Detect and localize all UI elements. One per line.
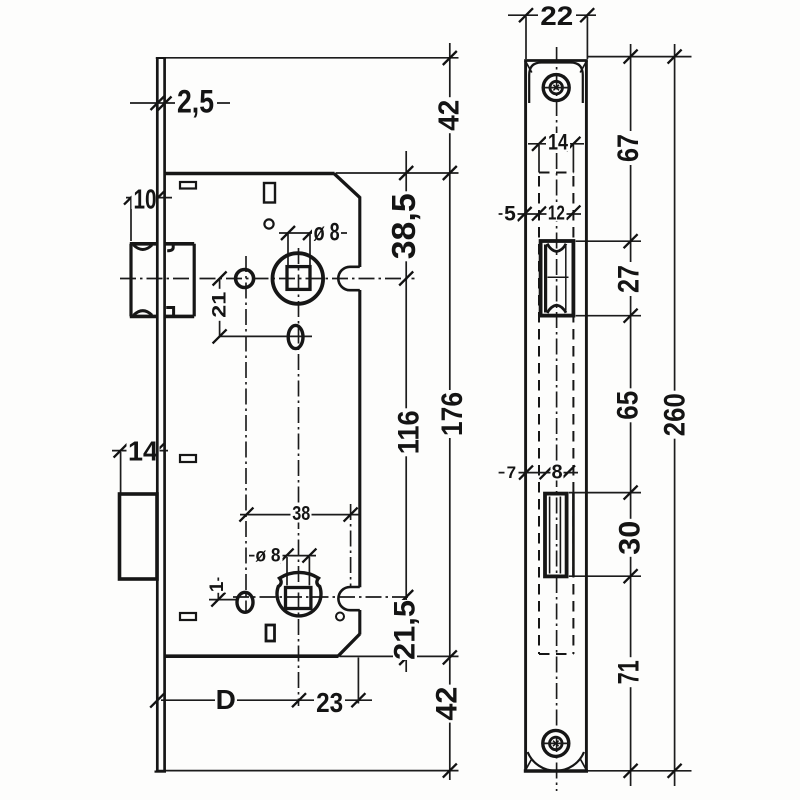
center line small holes vertical (245, 256, 247, 611)
latch head top edge (130, 242, 157, 246)
svg-text:ø 8: ø 8 (256, 545, 281, 567)
extension line plate top (166, 57, 459, 59)
dim dia8 lower extensions (286, 557, 288, 585)
svg-text:7: 7 (507, 463, 516, 482)
svg-text:14: 14 (128, 436, 158, 467)
latch opening frame (541, 241, 574, 316)
text D (215, 688, 237, 711)
text 42 bottom rotated (431, 685, 464, 723)
dim 14 extension (120, 452, 122, 494)
dim line A 38,5 116 21,5 (405, 151, 407, 672)
center line notch vertical (350, 504, 352, 588)
slot bottom middle (266, 625, 275, 641)
faceplate bottom cap (155, 770, 167, 772)
deadbolt side face right (559, 497, 561, 574)
text 38 (291, 506, 312, 523)
svg-text:176: 176 (436, 392, 469, 436)
center line latch axis horizontal (120, 278, 415, 280)
dim D 23 line (161, 699, 372, 701)
lower spindle follower with notches (277, 572, 321, 615)
text 14 right (546, 133, 570, 151)
lock body upper notch (338, 267, 360, 290)
lock body top edge (165, 172, 335, 175)
dim line D 260 (674, 44, 676, 786)
extension line lock top (336, 172, 459, 174)
latch head bottom edge (130, 315, 157, 319)
small hole upper (264, 219, 273, 228)
text 23 (314, 692, 345, 714)
deadbolt opening frame (545, 494, 567, 577)
dashed lock case left (538, 176, 540, 654)
extension line faceplate bottom right (588, 770, 692, 772)
svg-text:10: 10 (134, 184, 157, 215)
lock body right edge upper (358, 197, 361, 268)
svg-text:ø 8: ø 8 (314, 218, 340, 246)
extension line faceplate top right (588, 56, 692, 58)
text 176 rotated (436, 390, 469, 438)
dim 23 extension (357, 658, 359, 704)
latch bolt face bottom arc (547, 305, 566, 313)
text 42 top rotated (433, 97, 465, 133)
extension line latch top (576, 240, 641, 242)
text 30 rotated (613, 519, 646, 557)
follower hole lower left (237, 592, 253, 612)
screw hole slot bottom left (180, 613, 196, 620)
faceplate bottom corner fillet left (526, 760, 532, 770)
faceplate side view right line (163, 59, 166, 772)
text 21,5 rotated (389, 600, 422, 660)
screw top cross (553, 85, 559, 91)
svg-text:38,5: 38,5 (385, 193, 422, 259)
faceplate top cap (156, 57, 166, 59)
upper spindle circle (273, 253, 324, 304)
extension line bolt bottom (569, 575, 641, 577)
svg-text:1: 1 (207, 581, 228, 592)
svg-text:12: 12 (548, 202, 565, 224)
pocket side right solid (572, 145, 574, 173)
svg-text:67: 67 (612, 134, 645, 162)
svg-text:260: 260 (659, 393, 692, 436)
svg-text:42: 42 (433, 100, 465, 131)
center line faceplate vertical (556, 47, 558, 791)
latch housing bottom edge (164, 315, 194, 319)
faceplate bottom corner fillet right (581, 760, 587, 770)
svg-text:30: 30 (613, 521, 646, 555)
dim line C 67 27 65 30 71 (630, 44, 632, 786)
text dia8 upper (312, 223, 341, 242)
lock body right edge middle (358, 290, 361, 587)
screw top center line (543, 87, 571, 89)
deadbolt head (120, 494, 158, 579)
svg-text:8: 8 (551, 462, 562, 484)
screw hole slot middle left (180, 455, 196, 462)
text 2,5 (175, 90, 217, 116)
faceplate rounded end top (529, 63, 583, 104)
dim line B 42 176 42 (449, 43, 451, 780)
latch bolt face top arc (547, 244, 566, 252)
text 14 (127, 441, 160, 462)
text 5 (503, 206, 518, 222)
center line spindle vertical (298, 248, 300, 706)
faceplate front left edge (524, 61, 527, 771)
latch guide hook top (167, 244, 173, 251)
dim 1 lines (217, 578, 219, 600)
extension line bolt top (569, 492, 641, 494)
dim 38 line (240, 514, 360, 516)
lock body bottom edge (165, 654, 339, 658)
extension line lock bottom (340, 655, 459, 657)
text 1 rotated (207, 581, 228, 593)
latch guide step bottom (166, 308, 173, 317)
lock case edge beside deadbolt (572, 493, 575, 577)
text 27 rotated (613, 262, 646, 296)
faceplate front top edge (524, 59, 588, 62)
dim 10 extension (130, 199, 132, 241)
text 7 (505, 465, 519, 480)
center line lower spindle axis horizontal (233, 596, 408, 598)
svg-text:116: 116 (392, 410, 425, 454)
faceplate front bottom edge (524, 769, 588, 773)
lock body right edge lower (358, 610, 361, 635)
deadbolt side face left (549, 497, 551, 574)
screw bottom center line (542, 742, 570, 744)
dim dia8 lower line (249, 555, 316, 557)
text 65 rotated (611, 388, 644, 422)
svg-text:71: 71 (613, 660, 646, 684)
latch bolt face right edge (565, 246, 567, 311)
text 22 (538, 5, 576, 27)
dim 2,5 ticks (151, 96, 165, 110)
latch head left edge (129, 244, 132, 317)
spindle guide slot top (264, 183, 275, 203)
oval hole (288, 325, 303, 348)
svg-text:D: D (216, 684, 236, 715)
dim 7 8 line (499, 472, 578, 474)
svg-text:42: 42 (431, 687, 464, 721)
text 116 rotated (392, 408, 425, 456)
dim 14 line (112, 450, 168, 452)
lock body bottom chamfer (338, 634, 360, 656)
dim 14 right line (528, 143, 584, 145)
pocket side left solid (538, 145, 540, 173)
text 38,5 rotated (385, 191, 422, 261)
dim 22 line (508, 14, 596, 16)
dashed case bottom (539, 653, 573, 655)
dim 10 line (126, 197, 172, 199)
dim dia8 upper line (279, 232, 347, 234)
dashed lock case right (572, 176, 574, 654)
latch head top bevel arc (134, 245, 153, 250)
small hole near notch (336, 613, 344, 621)
dim dia8 upper extensions (287, 234, 289, 266)
screw top outer (543, 75, 569, 101)
screw bottom outer (543, 730, 569, 756)
svg-text:22: 22 (540, 1, 573, 31)
svg-text:21: 21 (209, 291, 230, 318)
text 67 rotated (612, 131, 645, 165)
latch housing right edge (193, 244, 196, 317)
lock body top chamfer (334, 174, 360, 198)
dim 22 extensions (525, 17, 527, 60)
screw bottom inner (550, 737, 563, 750)
faceplate top corner fillet left (526, 62, 532, 73)
text 21 rotated (209, 289, 230, 321)
text dia8 lower (255, 548, 283, 563)
faceplate front right edge (585, 61, 588, 771)
upper spindle square (287, 267, 310, 290)
dashed pocket bottom (539, 172, 573, 174)
text 71 rotated (613, 657, 646, 687)
svg-text:2,5: 2,5 (177, 84, 214, 120)
lock body lower notch (338, 587, 359, 610)
text 10 (132, 187, 159, 209)
latch housing top edge (164, 242, 194, 246)
svg-text:21,5: 21,5 (389, 600, 422, 660)
svg-text:65: 65 (611, 391, 644, 420)
screw hole slot top left (180, 182, 196, 189)
faceplate top corner fillet right (580, 62, 586, 73)
screw top inner (550, 81, 563, 94)
svg-text:38: 38 (292, 503, 310, 525)
follower hole left (236, 270, 254, 288)
screw bottom cross (553, 741, 559, 747)
latch head bottom bevel arc (134, 311, 153, 316)
latch bolt face left (544, 245, 547, 313)
dim 21 line (219, 279, 221, 337)
lower spindle square (286, 588, 311, 609)
svg-text:23: 23 (316, 687, 343, 718)
faceplate rounded end bottom (528, 752, 584, 771)
dim 2,5 line (130, 102, 230, 104)
faceplate side view left line (156, 59, 159, 772)
extension line plate bottom (157, 770, 459, 772)
svg-text:5: 5 (504, 202, 516, 225)
extension line latch bottom (576, 315, 641, 317)
text 260 rotated (659, 391, 692, 439)
text 8 (551, 465, 564, 481)
latch bolt mid line (548, 276, 569, 278)
svg-text:27: 27 (613, 265, 646, 293)
dim 5 12 line (499, 213, 581, 215)
svg-text:14: 14 (548, 130, 569, 155)
text 12 (547, 206, 567, 222)
extension line oval axis (220, 335, 313, 337)
